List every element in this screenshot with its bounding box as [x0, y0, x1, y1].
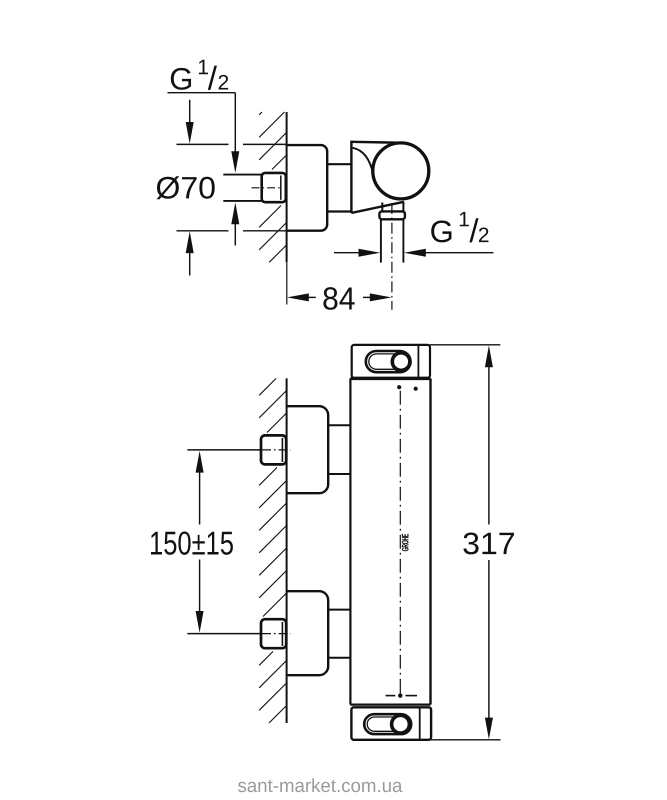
body top cap: [352, 345, 430, 378]
lower wall union flange (front view): [287, 591, 328, 675]
label 317: [463, 532, 514, 554]
wall surface line (front view): [286, 378, 288, 723]
label 84: [323, 287, 354, 310]
valve body horn (side view): [351, 141, 404, 213]
label G 1/2 (wall inlet thread): [171, 60, 228, 90]
leader line under G 1/2 label: [168, 92, 236, 94]
label diameter 70: [157, 176, 215, 199]
thermostat knob circle (side view): [373, 143, 429, 199]
dim 84 left arrow: [287, 293, 316, 301]
upper union pipe to body: [328, 425, 350, 474]
watermark sant-market.com.ua: [238, 778, 402, 792]
dim 70 arrow lower (up to flange bottom): [186, 231, 194, 275]
G 1/2 outlet dim line left (arrow right): [334, 249, 380, 257]
inlet nut on wall (top view): [262, 173, 286, 202]
outlet nut below body: [379, 211, 405, 219]
body bottom center mark: [386, 691, 417, 698]
body bottom cap: [351, 707, 431, 740]
extension line flange bottom: [177, 230, 288, 232]
small GROHE logotype on body: [402, 534, 408, 551]
bottom cap oval inner: [367, 717, 408, 731]
wall surface line (top view): [286, 112, 288, 262]
dim 150 lower arrow (down): [196, 560, 204, 633]
G 1/2 outlet dim line right (arrow left): [404, 249, 493, 257]
dim 317 lower arrow (down): [485, 560, 493, 739]
wall flange / escutcheon (top view): [287, 145, 327, 231]
bottom cap oval outer: [364, 714, 411, 734]
upper inlet nut (front view): [261, 435, 286, 464]
top cap oval outer: [366, 351, 411, 372]
wall section hatching (top view): [259, 112, 286, 262]
valve body outline (front view): [350, 379, 430, 705]
wall section hatching (front view): [259, 378, 286, 723]
inlet pipe through wall (top view): [223, 175, 262, 201]
outlet pipe (downward): [381, 219, 404, 262]
connector between flange and valve body: [327, 164, 351, 211]
label 150 plus-minus 15: [151, 531, 233, 554]
G 1/2 dimension line upper (arrow down to pipe top): [231, 93, 239, 173]
lower inlet nut (front view): [261, 619, 286, 648]
lower inlet centerline + extension: [187, 633, 291, 635]
outlet centerline: [391, 203, 393, 310]
top cap knob circle: [392, 353, 410, 371]
body centerline vertical: [399, 391, 401, 691]
dim 317 upper arrow (up): [485, 345, 493, 524]
upper wall union flange (front view): [287, 406, 328, 493]
dim 84 right arrow: [363, 293, 392, 301]
bottom cap knob circle: [392, 715, 410, 733]
bottom cap divider line: [419, 708, 421, 740]
wall extension line for 84 dim: [286, 262, 288, 304]
top cap divider line: [417, 345, 419, 377]
label G 1/2 (outlet thread): [431, 212, 488, 243]
G 1/2 dimension line lower (arrow up to pipe bottom): [231, 202, 239, 245]
top cap oval inner: [369, 354, 408, 369]
upper inlet centerline + extension: [187, 449, 291, 451]
dim 70 arrow upper (down to flange top): [186, 100, 194, 144]
dim 317 top extension line: [430, 344, 501, 346]
dim 150 upper arrow (up): [196, 451, 204, 525]
dim 317 bottom extension line: [431, 739, 501, 741]
lower union pipe to body: [328, 610, 350, 658]
body detail dots: [397, 385, 401, 389]
extension line flange top: [177, 143, 288, 145]
inlet pipe centerline (top view): [252, 187, 283, 189]
